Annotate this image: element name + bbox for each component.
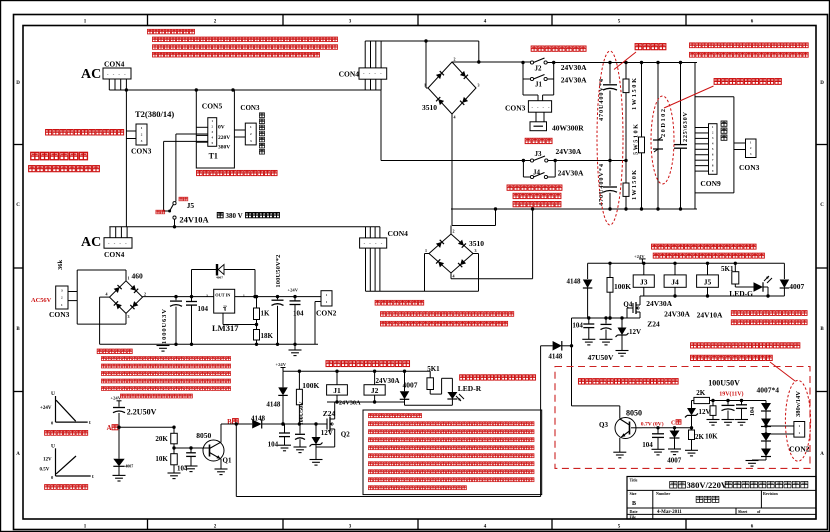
svg-text:3: 3 (475, 248, 477, 253)
wire bus 2 (y=226.8) (109, 226, 380, 228)
red label AC56V (31, 297, 52, 304)
red arrow to doubler (614, 52, 636, 70)
wire left vertical x=126.4 (125, 90, 127, 227)
red arrow to 380v/14V (770, 362, 795, 381)
red note: connect 380V/14V identification transformer (46, 130, 124, 135)
svg-text:CON3: CON3 (240, 104, 260, 112)
waveform B axes (40, 444, 95, 481)
svg-text:380V/220V: 380V/220V (687, 480, 728, 490)
connector CON2 (24V out) label (316, 309, 337, 318)
red note: LED-G off means 380V (731, 320, 807, 325)
diode string 4007*4 (752, 401, 771, 461)
label Z24 (Q2) (323, 409, 336, 418)
MOSFET Q4 (627, 296, 640, 318)
transistor Q3 8050 (615, 418, 642, 453)
relay coil J4 (664, 263, 686, 296)
svg-text:+24V: +24V (111, 396, 122, 401)
svg-text:104: 104 (293, 310, 304, 318)
label Q3 (599, 421, 608, 429)
resistor 20K (171, 426, 178, 454)
label 20K (155, 435, 168, 443)
svg-text:24V30A: 24V30A (646, 299, 672, 308)
svg-text:0V: 0V (218, 125, 225, 131)
connector CON3 (under T2) label (131, 147, 152, 156)
svg-text:Title: Title (630, 478, 638, 483)
svg-text:+24V: +24V (288, 288, 299, 293)
ground (100U output) (722, 420, 735, 426)
black vertical label fan (380V) (259, 113, 264, 154)
svg-text:LED-R: LED-R (458, 384, 482, 393)
label T2(380/14) (135, 109, 174, 119)
connector CON3 (under T2) (136, 124, 147, 145)
wire middle rail left (24V10A) (381, 90, 530, 161)
label 5K1 (LED-G) (721, 265, 734, 273)
svg-text:104: 104 (268, 441, 279, 449)
svg-text:CON3: CON3 (505, 104, 526, 113)
relay coil J2 (364, 371, 385, 402)
svg-text:Q3: Q3 (599, 421, 608, 429)
wires CON4 top-left pins to bus (109, 79, 126, 90)
ground (10K) (168, 473, 181, 479)
resistor 100K (relay row) (607, 263, 613, 318)
svg-text:19V(11V): 19V(11V) (719, 391, 743, 398)
svg-text:+24V: +24V (276, 362, 287, 367)
label 100U50V (output) (708, 378, 740, 387)
svg-text:18K: 18K (261, 332, 274, 340)
wire B loop down (236, 346, 540, 497)
wires CON9 stubs (695, 128, 709, 172)
label 5W510K (633, 124, 640, 155)
svg-text:4007: 4007 (667, 456, 682, 464)
waveform A axes (40, 391, 91, 426)
label CON5 (202, 102, 223, 111)
wires T1 left stubs (196, 127, 208, 142)
svg-text:OUT IN: OUT IN (215, 293, 231, 298)
svg-text:12V: 12V (321, 429, 333, 437)
wire doubler top rail (y=62.5) (554, 61, 697, 64)
svg-text:CON4: CON4 (388, 229, 409, 238)
wires CON4 top-right pins (365, 41, 381, 90)
wire bridge2 left down to bus3 (425, 254, 430, 292)
red note: J5 control transformer input relay (653, 253, 764, 258)
svg-text:C: C (820, 203, 824, 208)
label 47U50V (588, 353, 614, 362)
svg-text:100K: 100K (614, 282, 631, 291)
ground (diode string) (746, 461, 759, 467)
svg-text:T1: T1 (209, 152, 218, 161)
red label A point (107, 425, 118, 432)
resistor 18K (254, 330, 260, 345)
svg-text:J5: J5 (187, 201, 195, 210)
title block doubler type (696, 496, 719, 502)
label 470U400V*4 (lower) (598, 163, 605, 206)
svg-text:AC: AC (81, 235, 101, 250)
zener 12V (Q4) (616, 318, 629, 351)
label Q2 (341, 431, 350, 439)
bridge rectifier 3510 #2 (425, 229, 477, 279)
diode 4007 (LM317 bypass) (192, 264, 256, 297)
wire J1J2 coil common (327, 400, 452, 405)
wire J1J2 coil top (y=371.2) (283, 370, 430, 373)
wires CON3-R stubs (734, 143, 746, 150)
ground (Q4 zener) (616, 351, 629, 357)
wire Q1 base (174, 446, 203, 449)
ground (2K C point) (685, 450, 698, 456)
wire J4 right link (548, 159, 557, 177)
label 24V30A (J1) (561, 76, 587, 85)
diode 4148 (horizontal, detect) (541, 341, 574, 351)
svg-text:4: 4 (106, 292, 108, 297)
wire box around CON9 (695, 97, 734, 193)
svg-text:380v/14V: 380v/14V (795, 391, 802, 417)
ground (Q2 zener) (310, 460, 323, 466)
ground (10K output) (707, 420, 720, 426)
connector CON4 (bottom-mid) (360, 238, 387, 248)
ground (Q3 emitter) (613, 452, 626, 458)
svg-text:J2: J2 (371, 386, 379, 395)
red +24V label (relay row) (634, 254, 646, 263)
capacitor 104 (B net) (279, 424, 290, 445)
wire main 24V rail (y=296.6) (143, 295, 214, 298)
svg-text:4007: 4007 (216, 276, 223, 280)
svg-text:+24V: +24V (40, 406, 52, 411)
capacitor 100U50V (output) (722, 401, 735, 420)
svg-text:4148: 4148 (567, 277, 582, 285)
svg-text:J4: J4 (671, 278, 679, 287)
ground (104 output) (735, 420, 748, 426)
svg-text:8050: 8050 (196, 431, 211, 440)
resistor 10K (output) (710, 401, 716, 420)
wire T1 pin to J5 (lower) (164, 141, 208, 211)
label 3510 #2 (469, 239, 484, 248)
svg-text:LED-G: LED-G (729, 289, 753, 298)
svg-text:C: C (671, 421, 675, 427)
label 24V30A (Q2) (0, 0, 1, 1)
connector CON5 inside T1 (208, 118, 217, 147)
title block date value (657, 510, 682, 515)
svg-text:Date: Date (630, 509, 638, 514)
red note: start resistor (525, 138, 552, 143)
connector CON4 (top-right) label (339, 70, 360, 79)
wire output top rail (y=400.5) (692, 399, 767, 402)
svg-text:40W300R: 40W300R (552, 124, 584, 133)
label 1W150K (lower) (631, 170, 638, 200)
svg-text:104: 104 (198, 305, 209, 313)
capacitor 2.2U50V (113, 408, 125, 428)
connector CON2 (output) (794, 422, 805, 438)
label 40W300R (552, 124, 584, 133)
label 4148 (relay row left) (567, 277, 582, 285)
svg-text:1: 1 (424, 83, 426, 88)
red label B point voltage waveform (45, 485, 88, 490)
svg-text:1K: 1K (261, 310, 271, 318)
resistor... wire 100K bottom joins rail (608, 316, 611, 319)
red +24V (A point) (111, 396, 122, 407)
wires CON3-56V stubs (68, 292, 77, 301)
svg-text:4: 4 (454, 115, 456, 120)
label 12V (output) (699, 408, 711, 416)
svg-text:380 V: 380 V (226, 212, 243, 220)
svg-text:104: 104 (642, 441, 653, 449)
connector CON3 (56V) (56, 286, 68, 309)
wire Q3 collector link (572, 406, 620, 419)
svg-text:CON4: CON4 (104, 60, 125, 69)
transformer T1 outer box (196, 90, 234, 168)
resistor 1W150K (lower) (623, 161, 629, 210)
label 4007*4 (757, 386, 780, 395)
title block File label (630, 515, 637, 520)
svg-text:J5: J5 (704, 278, 712, 287)
label 104 (Q1) (177, 465, 188, 473)
capacitor 470U400V*4 (lower) (603, 161, 617, 210)
wire CON2 pin2 down (315, 302, 321, 345)
label 460 (132, 272, 144, 281)
label 24V30A (J3 coil) (646, 299, 672, 308)
wire T1 pin to J5 (upper) (176, 134, 208, 202)
label 3510 #1 (422, 103, 437, 112)
label 2.2U50V (127, 408, 157, 417)
svg-text:1: 1 (128, 275, 130, 280)
wire doubler bottom rail (y=209) (451, 207, 697, 210)
svg-text:C: C (16, 203, 20, 208)
svg-text:220V: 220V (218, 135, 230, 141)
label 4148 (B line) (251, 415, 266, 423)
wire relay coil common (y=296) (640, 294, 784, 297)
svg-text:1000U63V: 1000U63V (161, 309, 168, 344)
node J5 to bus2 (173, 225, 176, 228)
wire Q2 source to zener (316, 429, 335, 447)
diode 4148 (B line) (252, 420, 262, 429)
capacitor 47U50V (601, 318, 612, 339)
label tap 220V (218, 135, 230, 141)
red note: two-wire 380V/220V (29, 166, 100, 172)
title block Size label (630, 491, 637, 496)
red arrow to varistor (664, 86, 714, 108)
label Q4 (623, 301, 632, 309)
wire bus0 down to DC+ line (478, 41, 480, 62)
svg-text:2.2U50V: 2.2U50V (127, 408, 157, 417)
svg-text:3: 3 (206, 294, 208, 298)
capacitor 104 (Q4 rail) (583, 318, 594, 339)
svg-text:104: 104 (177, 465, 188, 473)
svg-text:36k: 36k (57, 260, 64, 271)
capacitor 225/630V (674, 63, 687, 210)
label AC (mid-left) (81, 235, 101, 250)
svg-text:12V: 12V (629, 328, 641, 336)
red note: 220V supply no-load 620V (690, 52, 809, 57)
svg-text:4007: 4007 (125, 464, 133, 469)
wire J3/J4 left link (522, 159, 531, 177)
svg-text:A: A (820, 452, 824, 457)
wire bridge2 top (450, 226, 452, 235)
capacitor 104 (56V supply) (186, 297, 197, 345)
label 104 (Q4 rail) (572, 322, 583, 330)
svg-text:1: 1 (425, 248, 427, 253)
svg-text:4-Mar-2011: 4-Mar-2011 (657, 510, 682, 515)
red note: LED-G lit means 220V (731, 311, 807, 316)
wire J2/J1 right link (547, 61, 555, 95)
wire middle rail right (548, 159, 628, 162)
svg-text:20K: 20K (155, 435, 168, 443)
red label: doubler rectification (635, 44, 666, 50)
ground (Q1 emitter) (215, 469, 228, 475)
svg-text:460: 460 (132, 272, 144, 281)
wire bridge1 bottom down (451, 114, 453, 226)
label 100U50V (B net, vertical) (299, 401, 305, 425)
title block B (632, 501, 636, 507)
zener 12V (output) (685, 401, 698, 428)
svg-text:CON3: CON3 (49, 310, 70, 319)
red note: CON5 connects 56V control transformer (197, 170, 278, 175)
svg-text:2K: 2K (695, 433, 705, 441)
svg-text:+24V: +24V (634, 254, 645, 259)
svg-text:Z24: Z24 (323, 409, 336, 418)
wire to bridge1 AC left (424, 39, 428, 88)
label 380v/14V (vertical) (795, 391, 802, 417)
varistor 20D102 (653, 63, 663, 210)
ground (104 Q4) (582, 339, 595, 345)
red note: connect 380V/14V detect transformer 14V side (691, 343, 800, 348)
red note paragraph (dual voltage principle) (147, 29, 337, 57)
bridge rectifier 460 (106, 275, 147, 319)
svg-text:AC: AC (81, 67, 101, 82)
label J5 (187, 201, 195, 210)
label 36k (vertical) (57, 260, 64, 271)
svg-text:3: 3 (478, 83, 480, 88)
red dashed box: input voltage detect circuit (555, 367, 810, 469)
label J1 contact (535, 81, 543, 89)
ground (100U B net) (294, 447, 307, 453)
red note: AC voltage input (31, 152, 88, 159)
bridge rectifier 3510 #1 (424, 57, 480, 120)
resistor 2K (horizontal) (694, 397, 710, 403)
svg-text:100K: 100K (302, 381, 319, 390)
connector CON4 (top-right) (359, 68, 387, 79)
svg-text:B: B (227, 419, 232, 426)
svg-text:5K1: 5K1 (427, 365, 440, 373)
svg-text:24V10A: 24V10A (179, 215, 209, 225)
label 24V30A (J2) (561, 63, 587, 72)
svg-text:4007*4: 4007*4 (757, 386, 780, 395)
label 8050 (Q3) (626, 408, 642, 417)
svg-text:4148: 4148 (548, 352, 563, 360)
relay contact J1 (530, 75, 547, 81)
connector CON2 (output) label (789, 445, 810, 454)
diode 4007 (A point) (113, 427, 124, 475)
red label 19V(11V) (719, 391, 743, 398)
ground (4007 A point) (113, 475, 126, 481)
red paragraph: dual voltage auto switching (368, 414, 534, 490)
label tap 380V (218, 145, 230, 151)
wire bus 0 (y=41) (365, 40, 479, 42)
wire relay coil top (y=263.3) (588, 262, 785, 265)
svg-text:2K: 2K (696, 389, 706, 397)
connector CON4 (top-left) label (104, 60, 125, 69)
zener 12V (Q2) (310, 422, 323, 459)
svg-text:J3: J3 (640, 278, 648, 287)
connector CON3 (right) label (739, 163, 760, 172)
svg-text:CON3: CON3 (131, 147, 152, 156)
label 24V10A (179, 215, 209, 225)
label Z24 (Q4) (647, 320, 660, 329)
resistor 5K1 (LED-R) (427, 371, 452, 394)
connector CON9 label (700, 179, 721, 188)
ground (supply rail right) (289, 344, 302, 355)
diode 4007 (J1J2 row) (400, 371, 410, 402)
svg-text:380V: 380V (218, 145, 230, 151)
wires into CON3 (start) (523, 95, 554, 101)
svg-text:Number: Number (656, 491, 670, 496)
MOSFET Q2 Z24 (311, 402, 335, 432)
svg-text:100U50V: 100U50V (708, 378, 740, 387)
svg-text:CON5: CON5 (202, 102, 223, 111)
ground (4007 C point) (668, 449, 681, 455)
capacitor 100U50V (B net) (295, 424, 305, 447)
svg-text:A: A (16, 452, 20, 457)
wire bus 3 (y=291.2) (366, 290, 479, 292)
red +24V (56V supply) (288, 288, 299, 293)
wire LM317 adj (223, 313, 258, 326)
ground (104 C point) (652, 449, 665, 455)
connector CON4 (bottom-left) label (104, 250, 125, 259)
red note: 380V supply no-load 530V (690, 43, 809, 48)
wire bridge2 right down to bus3 (473, 254, 479, 292)
black box around red paragraph (363, 410, 542, 495)
label 24V30A (J2 coil) (376, 377, 400, 385)
wire J1 left link (521, 61, 530, 95)
node bus junctions (125, 88, 235, 91)
label 24V10A (J5 coil) (697, 310, 723, 319)
label 4148 (B net) (266, 400, 281, 408)
capacitor 104 (C point) (652, 428, 664, 450)
capacitor 104 #2 (56V supply) (290, 297, 301, 345)
svg-text:CON2: CON2 (316, 309, 337, 318)
wires T1 to fan CON3 (234, 130, 245, 137)
wires CON4 bottom-left pins (110, 227, 127, 238)
red note: closed for 220V (513, 201, 561, 206)
red note: J1 J2 soft start relays (326, 361, 409, 367)
title block Number label (656, 491, 670, 496)
red note: welder work state indication (375, 300, 424, 305)
red note: varistor overvoltage protection (714, 79, 781, 85)
relay contact J3 (530, 156, 548, 162)
svg-text:U: U (51, 444, 55, 450)
title block Sheet label (738, 509, 761, 514)
diode 4148 (relay row left) (583, 263, 593, 318)
svg-text:CON4: CON4 (104, 250, 125, 259)
svg-text:CON4: CON4 (339, 70, 360, 79)
label 20D102 (660, 109, 667, 137)
svg-text:104: 104 (572, 322, 583, 330)
label T1 (209, 152, 218, 161)
wire 56V loop (77, 270, 126, 324)
connector CON9 (709, 124, 718, 175)
label 4148 (horizontal) (548, 352, 563, 360)
resistor 5W510K (639, 63, 645, 210)
svg-text:8050: 8050 (626, 408, 642, 417)
label LED-G (729, 289, 753, 298)
LED LED-G (754, 276, 773, 296)
wires CON4 bottom-mid pins (366, 227, 380, 291)
red note: J3 J4 main changeover relays (652, 244, 757, 249)
label 4007 (relay row right) (789, 282, 804, 291)
wires CON3 to start resistor (536, 112, 544, 122)
svg-text:Q2: Q2 (341, 431, 350, 439)
resistor 5K1 (LED-G) (732, 263, 754, 287)
svg-text:1W150K: 1W150K (631, 170, 638, 200)
relay contact J2 (530, 58, 547, 64)
label 10K (output) (705, 432, 718, 440)
